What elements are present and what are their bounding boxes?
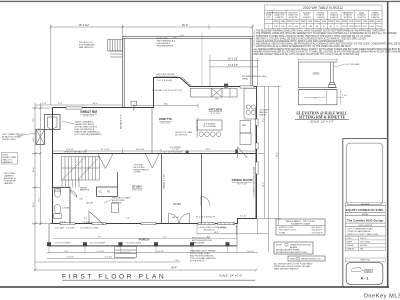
svg-text:SHEET NO: SHEET NO (360, 260, 370, 262)
svg-text:1. THE BUILDING THERMAL ENVE: 1. THE BUILDING THERMAL ENVELOPE SHALL H… (254, 30, 386, 33)
svg-text:The Camden 2022 Design: The Camden 2022 Design (347, 218, 384, 222)
dinette width dim (134, 105, 198, 107)
svg-text:FOR OTHER REQUIREMENTS: FOR OTHER REQUIREMENTS (75, 134, 103, 136)
porch front edge (49, 224, 237, 247)
svg-text:INSTALLATION INSTRUCTIONS: INSTALLATION INSTRUCTIONS (276, 251, 307, 254)
right notes boxes (276, 219, 325, 235)
svg-text:2 X 6 PLUMBING WALL: 2 X 6 PLUMBING WALL (196, 118, 199, 138)
fireplace (45, 115, 61, 130)
svg-text:24 COUNTER: 24 COUNTER (203, 126, 217, 128)
SE corner dim extension (257, 219, 259, 234)
corner counter with sink (244, 88, 257, 119)
svg-text:5'-0 WINDOW SEAT W BOOKCASE: 5'-0 WINDOW SEAT W BOOKCASE (252, 166, 255, 197)
svg-text:UP 14R: UP 14R (86, 203, 94, 205)
svg-text:11'-0 1/2: 11'-0 1/2 (101, 149, 110, 151)
svg-text:2020 WH TABLE N-R0212: 2020 WH TABLE N-R0212 (303, 6, 343, 10)
kitchen dims above (209, 55, 259, 87)
powder door swing (70, 191, 77, 198)
svg-text:16'-0: 16'-0 (214, 232, 220, 234)
svg-text:INSTALL AS PER PRIME: INSTALL AS PER PRIME (276, 249, 300, 252)
slider marker on rear wall (131, 101, 137, 105)
second bottom dim row (47, 257, 135, 259)
bottom dim row 2 (35, 261, 180, 263)
left dim row above great rm (35, 104, 123, 106)
toilet (54, 189, 60, 197)
front step (115, 247, 137, 258)
east wall (256, 87, 258, 219)
dinette bay west wall (153, 78, 155, 109)
svg-text:& DEPTH: & DEPTH (289, 17, 298, 19)
svg-text:WIRED AND INTERCONNECTED AND: WIRED AND INTERCONNECTED AND (274, 265, 311, 268)
svg-text:0.30: 0.30 (274, 26, 278, 28)
svg-text:DINETTE: DINETTE (159, 117, 172, 121)
front wall windows (60, 223, 235, 225)
svg-text:3 PANEL 8'-0 DR: 3 PANEL 8'-0 DR (163, 174, 166, 190)
svg-text:NOTE: NOTE (290, 258, 296, 260)
svg-text:0.30: 0.30 (281, 26, 285, 28)
sheet no header (345, 258, 385, 261)
svg-text:16'-0 1/2 6'-8 HDR LVL: 16'-0 1/2 6'-8 HDR LVL (196, 217, 215, 219)
svg-text:9'-0" CLG: 9'-0" CLG (237, 183, 247, 185)
svg-text:JOB #: JOB # (347, 238, 354, 240)
elevation detail: half wall section (299, 62, 338, 105)
svg-text:HAVE BATTERY BACKUP: HAVE BATTERY BACKUP (274, 268, 299, 271)
sheet no box with logo (346, 263, 383, 285)
svg-text:~ 959 SQ FT: ~ 959 SQ FT (310, 227, 323, 229)
svg-text:2'-6 CSMT: 2'-6 CSMT (66, 227, 76, 229)
svg-text:SCALE: SCALE (347, 244, 354, 247)
svg-text:7. LIGHTING 90% OF ALL LAMPS: 7. LIGHTING 90% OF ALL LAMPS IN PERMANEN… (254, 45, 351, 48)
svg-text:~ 1773 SQ FT: ~ 1773 SQ FT (310, 232, 324, 234)
decor column note (175, 131, 193, 137)
model row header (345, 213, 385, 216)
sheet top border (0, 0, 400, 2)
dining front wall (237, 218, 257, 220)
svg-text:JULY 2022: JULY 2022 (360, 241, 371, 243)
svg-text:BASE HDR: BASE HDR (80, 189, 90, 192)
wh table header texts (264, 12, 381, 28)
svg-text:STYLE PORCH: STYLE PORCH (190, 261, 205, 263)
svg-text:14'-4 1/2": 14'-4 1/2" (228, 64, 238, 67)
svg-text:2022-1: 2022-1 (360, 238, 367, 240)
dinette west half wall (151, 108, 153, 154)
svg-text:36'-0": 36'-0" (182, 23, 189, 27)
svg-text:& DEPTH: & DEPTH (330, 17, 339, 19)
svg-text:11'-0 1/2: 11'-0 1/2 (136, 149, 145, 151)
svg-text:1'-8 VAN: 1'-8 VAN (62, 207, 70, 210)
svg-text:& DEPTH: & DEPTH (357, 17, 366, 19)
svg-text:OneKey MLS: OneKey MLS (364, 294, 400, 300)
svg-text:8'-0 1/2: 8'-0 1/2 (66, 149, 74, 151)
svg-text:NOTED: NOTED (360, 245, 368, 247)
svg-text:5. CALCULATIONS ACCORDANCE W: 5. CALCULATIONS ACCORDANCE WITH LATEST 1… (254, 40, 345, 43)
foyer gate note (112, 197, 131, 205)
bottom long dim (35, 269, 256, 271)
svg-text:FOR STAIR AND: FOR STAIR AND (79, 44, 95, 47)
svg-text:12'-8: 12'-8 (33, 202, 35, 208)
svg-text:PRES: PRES (328, 21, 334, 23)
svg-text:SEE NOTE: SEE NOTE (112, 203, 122, 205)
svg-text:PRES: PRES (342, 21, 348, 23)
svg-text:ALL SMOKE/CARBON DETECTION DEV: ALL SMOKE/CARBON DETECTION DEVICES SHALL… (254, 48, 400, 51)
front wall jog at dining (237, 219, 239, 224)
job location body (345, 226, 385, 236)
svg-text:LANDING: LANDING (4, 182, 13, 185)
svg-text:DRN BY: DRN BY (347, 249, 355, 251)
smoke note box (288, 256, 325, 261)
svg-text:12'-0 X 8'-0 WDW: 12'-0 X 8'-0 WDW (55, 243, 70, 245)
svg-text:16'-8" CLG: 16'-8" CLG (83, 116, 94, 118)
co note box (274, 242, 313, 254)
svg-text:3'-0 1/2: 3'-0 1/2 (240, 215, 246, 217)
island stools (199, 132, 221, 137)
svg-text:~ 914 SQ FT: ~ 914 SQ FT (310, 230, 323, 232)
pantry boxes (240, 121, 251, 145)
svg-text:SQUARE FOOTAGE: SQUARE FOOTAGE (291, 223, 311, 226)
svg-text:TOTAL: TOTAL (279, 231, 286, 234)
porch inner dim row (53, 237, 237, 239)
job fields table (345, 236, 385, 251)
r19 note (192, 238, 212, 245)
chimney box (36, 130, 45, 145)
texts above front wall (84, 215, 246, 219)
front door and swings (169, 214, 190, 224)
sheet right border (387, 1, 389, 288)
job location header (345, 223, 385, 226)
svg-text:LOT ### WHEELER ROAD: LOT ### WHEELER ROAD (347, 227, 373, 230)
svg-text:26'-4: 26'-4 (276, 152, 278, 158)
svg-text:& DEPTH: & DEPTH (371, 17, 380, 19)
interior main wall (53, 153, 257, 155)
svg-text:10" COLUMN: 10" COLUMN (346, 64, 360, 66)
post marker on kitchen wall (224, 84, 228, 88)
svg-text:PRES: PRES (273, 21, 279, 23)
main stairs (62, 157, 100, 181)
sheet bottom border (0, 286, 389, 288)
svg-text:REQUIREMENTS: REQUIREMENTS (157, 46, 174, 48)
svg-text:& DEPTH: & DEPTH (344, 17, 353, 19)
title block outer (343, 139, 388, 287)
rear wall window symbol (66, 107, 82, 109)
svg-text:& DEPTH: & DEPTH (303, 17, 312, 19)
svg-text:TOWN OF HAUPPAUGE: TOWN OF HAUPPAUGE (347, 230, 371, 233)
svg-text:WHERE AN AIR HANDLER IS LOCATE: WHERE AN AIR HANDLER IS LOCATED IN AN AT… (254, 50, 400, 53)
svg-text:ALARM: ALARM (290, 246, 297, 249)
svg-text:EQUITY HOMES NY II INC.: EQUITY HOMES NY II INC. (346, 208, 385, 212)
svg-text:16'-0 1/2": 16'-0 1/2" (79, 23, 90, 27)
room labels (80, 108, 253, 242)
great rm leader note (75, 121, 103, 137)
porch column ticks to dim row (49, 224, 237, 254)
svg-text:KITCHEN: KITCHEN (209, 108, 222, 112)
front wall (51, 223, 238, 225)
kitchen window over sink (240, 86, 254, 88)
mud door diagonal (238, 147, 248, 158)
mid dim row (53, 149, 256, 153)
svg-text:A-W 3 A-W SLIDER: A-W 3 A-W SLIDER (157, 73, 175, 76)
bottom dim row 1 (47, 252, 258, 254)
svg-text:15/19: 15/19 (376, 26, 381, 28)
porch window texts (55, 243, 141, 245)
kitchen island (197, 120, 222, 130)
svg-text:10.2 FT: 10.2 FT (355, 26, 362, 28)
extra window labels (66, 227, 226, 232)
deck outline (123, 37, 253, 108)
deck note left (79, 42, 95, 49)
stamp box (346, 143, 382, 205)
svg-text:36 OPPOSITE: 36 OPPOSITE (175, 135, 188, 137)
study west wall (117, 172, 119, 197)
svg-text:20: 20 (330, 26, 332, 28)
svg-text:16'-0: 16'-0 (93, 103, 99, 105)
svg-text:SITTING RM & DINETTE: SITTING RM & DINETTE (299, 116, 346, 120)
left dim verticals (32, 103, 53, 271)
svg-text:PRES: PRES (314, 21, 320, 23)
elevation dims (299, 58, 346, 105)
svg-text:GREAT RM: GREAT RM (80, 110, 97, 114)
hall closet walls (97, 187, 118, 197)
west wall (52, 108, 54, 224)
east wall windows (255, 119, 258, 174)
wh table box (265, 5, 383, 29)
study front bench (112, 203, 119, 213)
svg-text:7'-6 1/2: 7'-6 1/2 (246, 251, 254, 253)
svg-text:DATE: DATE (347, 240, 353, 243)
svg-text:STUDY: STUDY (132, 184, 142, 188)
svg-text:15/19: 15/19 (349, 26, 354, 28)
dining window hatch ticks (201, 223, 233, 225)
svg-text:FIRST FLOOR: FIRST FLOOR (279, 227, 293, 229)
svg-text:CANTILEVER: CANTILEVER (192, 242, 205, 245)
svg-text:DINING ROOM: DINING ROOM (232, 178, 253, 182)
general notes list (254, 30, 400, 56)
svg-text:10.2: 10.2 (363, 26, 367, 28)
left notes (2, 133, 24, 141)
svg-text:(SINK): (SINK) (242, 79, 248, 81)
svg-text:3'-0 ENTRY: 3'-0 ENTRY (83, 222, 93, 224)
right dim verticals (258, 86, 281, 252)
svg-text:SECOND FLOOR: SECOND FLOOR (279, 230, 296, 232)
svg-text:GUARD: GUARD (259, 114, 267, 117)
dinette bay rear wall slider (153, 77, 180, 79)
svg-text:CEILING LEVEL: CEILING LEVEL (2, 139, 16, 141)
svg-text:DBL DR: DBL DR (172, 217, 179, 219)
great rm rear wall (53, 107, 154, 109)
left rotated dim texts (33, 117, 41, 207)
svg-text:SMOKE DETECTOR: SMOKE DETECTOR (301, 258, 321, 260)
builder row (345, 203, 385, 206)
svg-text:7'-6 1/2: 7'-6 1/2 (156, 251, 164, 253)
svg-text:FOYER: FOYER (173, 203, 182, 206)
garage below note (259, 110, 269, 117)
svg-text:2'-8: 2'-8 (126, 218, 129, 220)
half wall posts (186, 151, 189, 154)
svg-text:16'-1: 16'-1 (164, 104, 170, 106)
svg-text:36 X 80: 36 X 80 (60, 222, 66, 224)
bay diagonal wall (180, 77, 192, 87)
svg-text:PRES: PRES (287, 21, 293, 23)
left dim slash ticks (34, 107, 42, 225)
svg-text:PROVIDE GASKET SEALS AT ALL AT: PROVIDE GASKET SEALS AT ALL ATTIC ACCESS… (254, 53, 360, 56)
svg-text:FO: FO (107, 192, 110, 194)
svg-text:12'-0 X 8'-0 WDW: 12'-0 X 8'-0 WDW (90, 243, 105, 245)
svg-text:7'-2 1/2: 7'-2 1/2 (66, 256, 74, 258)
svg-text:SUFFOLK COUNTY, NEW YORK: SUFFOLK COUNTY, NEW YORK (347, 234, 379, 236)
top dim line (51, 25, 253, 106)
svg-text:2. THE THERMAL ENVELOPE SHAL: 2. THE THERMAL ENVELOPE SHALL BE VERIFIE… (254, 32, 398, 35)
svg-text:PRES: PRES (301, 21, 307, 23)
porch columns (47, 242, 230, 246)
kitchen rear wall (190, 86, 257, 88)
svg-text:DW: DW (215, 98, 218, 100)
svg-text:0.40: 0.40 (308, 26, 312, 28)
builder name (345, 206, 385, 213)
svg-text:9'-0" CLG: 9'-0" CLG (211, 113, 221, 115)
svg-text:7'-2 1/2: 7'-2 1/2 (104, 256, 112, 258)
svg-text:21: 21 (336, 26, 338, 28)
study east wall (161, 154, 163, 224)
svg-text:15/19: 15/19 (342, 26, 347, 28)
wh table columns (273, 10, 376, 29)
svg-text:3. APPROVED SYSTEM SHALL HAV: 3. APPROVED SYSTEM SHALL HAVE NO MORE TH… (254, 35, 372, 38)
svg-text:0.55: 0.55 (288, 26, 292, 28)
kitchen counters top (191, 88, 238, 97)
svg-text:A - 1: A - 1 (361, 277, 369, 281)
svg-text:21'-8: 21'-8 (206, 149, 212, 151)
svg-text:12'-0 X 8'-0 WDW: 12'-0 X 8'-0 WDW (126, 243, 141, 245)
svg-text:15/19: 15/19 (369, 26, 374, 28)
svg-text:SCALE : 1/4" = 1'-0": SCALE : 1/4" = 1'-0" (219, 274, 242, 278)
powder room walls (53, 187, 70, 223)
svg-text:2'-6 CSMT: 2'-6 CSMT (55, 227, 65, 229)
svg-text:16'-1 1/2": 16'-1 1/2" (228, 58, 238, 61)
svg-text:FIRST FLOOR PLAN: FIRST FLOOR PLAN (62, 273, 166, 280)
svg-text:9'-0" CLG: 9'-0" CLG (161, 122, 171, 124)
deck stair (108, 40, 123, 58)
svg-text:BASEMENT: BASEMENT (3, 161, 14, 164)
svg-text:RAIL HEIGHTS: RAIL HEIGHTS (79, 46, 94, 49)
svg-text:1'-10: 1'-10 (174, 260, 180, 262)
svg-text:4'-0: 4'-0 (84, 218, 87, 220)
svg-text:9'-0" CLG: 9'-0" CLG (132, 190, 142, 192)
sink pedestal (54, 205, 61, 214)
svg-text:SCALE : 1/2" = 1'-0": SCALE : 1/2" = 1'-0" (310, 120, 333, 124)
model name (345, 216, 385, 224)
svg-text:(NY): (NY) (267, 17, 271, 19)
svg-text:0.40: 0.40 (301, 26, 305, 28)
svg-text:2'-6 CSMT 2'-6 CSMT: 2'-6 CSMT 2'-6 CSMT (80, 227, 99, 229)
svg-text:14'-0: 14'-0 (262, 182, 264, 188)
svg-text:LIN: LIN (80, 199, 84, 201)
svg-text:6'-0 x 1'-0: 6'-0 x 1'-0 (121, 252, 131, 254)
stair lower treads (62, 180, 79, 187)
svg-text:7'-1 1/2: 7'-1 1/2 (96, 251, 104, 253)
svg-text:49: 49 (323, 26, 325, 28)
svg-text:OPTIONAL +5'-6 X 6'-0 OPT CLG: OPTIONAL +5'-6 X 6'-0 OPT CLG (152, 89, 182, 92)
svg-text:6. MECHANICAL VENTILATION SH: 6. MECHANICAL VENTILATION SHALL BE PROVI… (254, 43, 400, 46)
right rotated dims (262, 117, 278, 187)
svg-text:OPEN: OPEN (313, 73, 320, 76)
svg-text:MULLED 2x: MULLED 2x (204, 229, 214, 231)
svg-text:10'-1 X 8'-0 HDR: 10'-1 X 8'-0 HDR (157, 80, 173, 82)
cased opening arcs (98, 154, 159, 169)
svg-text:WD DECK 16-8: WD DECK 16-8 (121, 114, 123, 129)
svg-text:ALL SMOKE DETECTORS TO BE HARD: ALL SMOKE DETECTORS TO BE HARD (274, 262, 313, 265)
svg-text:0.55: 0.55 (295, 26, 299, 28)
svg-text:NOTE: NOTE (276, 244, 282, 246)
svg-text:PRES: PRES (369, 21, 375, 23)
svg-text:1'-10: 1'-10 (342, 95, 348, 97)
dining front dim row (197, 233, 269, 235)
svg-text:49: 49 (316, 26, 318, 28)
svg-text:PRES: PRES (356, 21, 362, 23)
svg-text:3'-6 ISLAND: 3'-6 ISLAND (204, 122, 216, 125)
svg-text:4. HEATING & COOLING SHALL B: 4. HEATING & COOLING SHALL BE SIZED IN A… (254, 37, 367, 40)
svg-text:10'-4: 10'-4 (33, 167, 35, 173)
optional french door note (134, 164, 149, 174)
coat closet door diagonal (89, 211, 104, 224)
alum rail note (157, 37, 176, 48)
svg-text:36'-4": 36'-4" (171, 267, 177, 270)
smoke note text (274, 262, 313, 270)
svg-text:& DEPTH: & DEPTH (275, 17, 284, 19)
svg-text:& DEPTH: & DEPTH (316, 17, 325, 19)
dining west wall (201, 154, 203, 224)
svg-text:1'-7 1/2: 1'-7 1/2 (171, 149, 179, 151)
porch note right (190, 250, 216, 263)
svg-text:DOORS: DOORS (134, 172, 142, 174)
